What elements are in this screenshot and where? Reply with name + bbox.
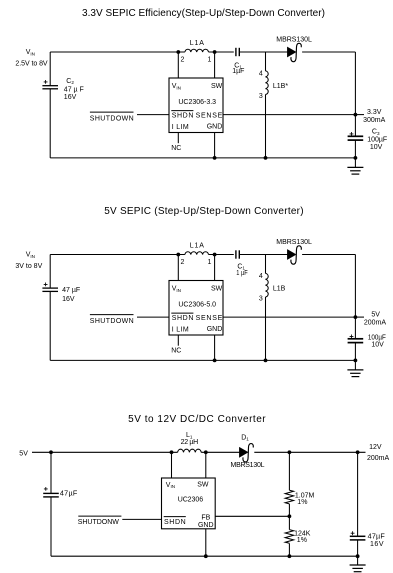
svg-text:FB: FB: [201, 514, 210, 521]
node SHUTDOWN input circuit 2: [90, 314, 134, 316]
svg-text:1 µF: 1 µF: [236, 270, 247, 277]
junction: output cap branch circuit 3: [356, 450, 360, 454]
wire: left input rail circuit 2: [49, 255, 51, 289]
capacitor C1 1uF coupling circuit 2: [235, 250, 237, 258]
junction: feedback divider top circuit 3: [288, 450, 292, 454]
svg-text:C2: C2: [66, 78, 74, 85]
svg-text:3.3V SEPIC Efficiency(Step-Up/: 3.3V SEPIC Efficiency(Step-Up/Step-Down …: [82, 8, 325, 19]
svg-text:SW: SW: [211, 286, 223, 293]
wire: VOUT stub circuit 1: [355, 114, 364, 116]
svg-text:L1A: L1A: [190, 40, 205, 47]
wire: left input branch circuit 3: [50, 452, 52, 493]
svg-text:5V to 12V DC/DC Converter: 5V to 12V DC/DC Converter: [128, 414, 266, 425]
svg-text:47µF: 47µF: [368, 532, 386, 541]
inductor L1B circuit 1: [265, 52, 267, 71]
svg-text:1%: 1%: [297, 537, 307, 544]
junction: IC GND pin to bottom rail circuit 1: [214, 133, 216, 158]
svg-text:C3: C3: [372, 129, 380, 136]
junction: L1A pin1 / SW node circuit 1: [213, 50, 217, 54]
junction: GND pin / bottom rail circuit 3: [204, 554, 208, 558]
svg-text:SHDN: SHDN: [164, 519, 186, 526]
wire: SENSE pin to output node circuit 2: [223, 316, 355, 318]
svg-text:200mA: 200mA: [364, 320, 387, 327]
resistor R2 124K circuit 3: [288, 516, 290, 529]
diode D1 MBRS130L circuit 3: [239, 447, 248, 457]
junction: R2 to ground rail circuit 3: [288, 554, 292, 558]
wire: top rail L1A to C1 circuit 2: [209, 254, 234, 256]
svg-text:SHDN: SHDN: [172, 113, 194, 120]
capacitor C1 1uF coupling circuit 1: [235, 48, 237, 56]
svg-text:L1B*: L1B*: [273, 83, 288, 90]
wire: NC stub from ILIM pin circuit 2: [177, 335, 179, 346]
svg-text:16V: 16V: [370, 541, 384, 548]
wire: output rail down circuit 2: [354, 255, 356, 339]
svg-text:1: 1: [207, 57, 211, 64]
svg-text:5V: 5V: [371, 312, 380, 319]
svg-text:VIN: VIN: [172, 286, 181, 293]
IC U1 UC2306-3.3 circuit 1: [169, 78, 223, 133]
svg-text:300mA: 300mA: [363, 117, 386, 124]
svg-text:3V to 8V: 3V to 8V: [15, 263, 42, 270]
wire: diode to output rail circuit 2: [302, 254, 355, 256]
svg-text:47µF: 47µF: [60, 489, 78, 498]
svg-text:UC2306: UC2306: [178, 496, 203, 503]
inductor L1A circuit 2: [185, 252, 209, 255]
svg-text:47 µF: 47 µF: [62, 287, 80, 294]
capacitor C3 100uF circuit 1: [348, 135, 364, 137]
svg-text:MBRS130L: MBRS130L: [276, 36, 312, 43]
svg-text:SHUTDONW: SHUTDONW: [78, 519, 120, 526]
wire: SHUTDOWN to SHDN pin circuit 2: [137, 316, 169, 318]
svg-text:SHUTDOWN: SHUTDOWN: [90, 318, 134, 325]
pin SHDN label circuit 3: [164, 516, 186, 518]
wire: diode to output rail circuit 1: [302, 51, 355, 53]
wire: SENSE pin to output node circuit 1: [223, 114, 355, 116]
wire: ground bottom rail circuit 3: [51, 555, 358, 557]
svg-text:GND: GND: [207, 123, 223, 130]
svg-text:I LIM: I LIM: [172, 327, 189, 334]
svg-text:L1A: L1A: [190, 242, 205, 249]
svg-text:47 µ F: 47 µ F: [64, 86, 84, 93]
wire: L1A pin2 to IC VIN pin circuit 1: [177, 52, 179, 78]
junction: FB node circuit 3: [288, 514, 292, 518]
svg-text:1: 1: [207, 259, 211, 266]
svg-text:SW: SW: [197, 482, 209, 489]
wire: ground bottom rail circuit 1: [50, 157, 355, 159]
ground symbol circuit 2: [354, 360, 356, 370]
svg-text:MBRS130L: MBRS130L: [276, 239, 312, 246]
wire: input top rail circuit 2: [50, 254, 185, 256]
svg-text:2: 2: [180, 57, 184, 64]
wire: NC stub from ILIM pin circuit 1: [177, 133, 179, 144]
svg-text:VIN: VIN: [166, 482, 175, 489]
wire: ground bottom rail circuit 2: [50, 359, 355, 361]
junction: input cap branch circuit 3: [49, 450, 53, 454]
svg-text:SENSE: SENSE: [196, 315, 223, 322]
node SHUTDONW input circuit 3: [78, 515, 121, 517]
junction: output cap to ground rail circuit 3: [356, 554, 360, 558]
resistor R1 1.07M circuit 3: [288, 452, 290, 490]
svg-text:VIN: VIN: [26, 49, 35, 56]
IC U3 UC2306 circuit 3: [162, 478, 216, 529]
wire: C1 to diode circuit 2: [239, 254, 287, 256]
svg-text:VIN: VIN: [26, 252, 35, 259]
junction: output cap to bottom rail circuit 2: [354, 359, 358, 363]
svg-text:2.5V to 8V: 2.5V to 8V: [15, 61, 48, 68]
svg-text:3.3V: 3.3V: [367, 109, 382, 116]
wire: SHUTDOWN to SHDN pin circuit 1: [137, 114, 169, 116]
svg-text:UC2306-5.0: UC2306-5.0: [178, 301, 216, 308]
ground symbol circuit 3: [357, 556, 359, 565]
svg-text:1µF: 1µF: [232, 68, 244, 75]
wire: IC GND pin to ground rail circuit 3: [205, 529, 207, 556]
capacitor output 47uF 16V circuit 3: [350, 535, 366, 537]
pin SHDN label circuit 2: [171, 312, 193, 314]
inductor L1A circuit 1: [185, 49, 209, 52]
wire: L1A pin1 to IC SW pin circuit 2: [214, 255, 216, 281]
svg-text:GND: GND: [207, 326, 223, 333]
svg-text:10V: 10V: [370, 144, 383, 151]
wire: L1A pin2 to IC VIN pin circuit 2: [177, 255, 179, 281]
diode MBRS130L circuit 2: [287, 250, 296, 260]
svg-text:SHUTDOWN: SHUTDOWN: [90, 116, 134, 123]
wire: FB pin to divider circuit 3: [215, 515, 289, 517]
wire: L1A pin1 to IC SW pin circuit 1: [214, 52, 216, 78]
wire: L1 to IC VIN pin circuit 3: [171, 452, 173, 478]
wire: L1 to IC SW pin circuit 3: [205, 452, 207, 478]
wire: input top rail circuit 1: [50, 51, 185, 53]
svg-text:VIN: VIN: [172, 83, 181, 90]
svg-text:16V: 16V: [64, 94, 77, 101]
wire: 5V input rail circuit 3: [32, 451, 178, 453]
svg-text:D1: D1: [241, 434, 249, 441]
svg-text:GND: GND: [198, 522, 214, 529]
svg-text:I LIM: I LIM: [172, 124, 189, 131]
svg-text:12V: 12V: [369, 444, 382, 451]
wire: top rail L1A to C1 circuit 1: [209, 51, 234, 53]
wire: output rail down circuit 3: [357, 452, 359, 536]
svg-text:16V: 16V: [62, 296, 75, 303]
svg-text:1%: 1%: [297, 499, 307, 506]
junction: L1B pin3 to bottom rail circuit 1: [264, 156, 268, 160]
svg-text:L1B: L1B: [273, 286, 286, 293]
svg-text:SENSE: SENSE: [196, 112, 223, 119]
capacitor C2 47uF circuit 1: [42, 85, 58, 87]
wire: output rail down circuit 1: [354, 52, 356, 136]
pin SHDN label circuit 1: [171, 110, 193, 112]
svg-text:NC: NC: [171, 145, 181, 152]
diode MBRS130L circuit 1: [287, 47, 296, 57]
svg-text:100µF: 100µF: [367, 137, 387, 144]
svg-text:100µF: 100µF: [368, 335, 386, 342]
capacitor output 100uF circuit 2: [348, 338, 364, 340]
junction: SENSE / VOUT node circuit 2: [354, 315, 358, 319]
svg-text:2: 2: [180, 259, 184, 266]
svg-text:3: 3: [259, 93, 263, 100]
svg-text:200mA: 200mA: [367, 455, 390, 462]
junction: L1B pin3 to bottom rail circuit 2: [264, 359, 268, 363]
svg-text:10V: 10V: [371, 342, 384, 349]
svg-text:NC: NC: [171, 348, 181, 355]
junction: L1A pin2 / VIN node circuit 2: [176, 253, 180, 257]
ground symbol circuit 1: [354, 158, 356, 168]
wire: left input rail circuit 1: [49, 52, 51, 86]
wire: SHUTDONW to SHDN pin circuit 3: [122, 518, 161, 520]
svg-text:SW: SW: [211, 83, 223, 90]
wire: D1 to output circuit 3: [254, 451, 365, 453]
capacitor input bulk 47uF circuit 2: [42, 287, 58, 289]
inductor L1B circuit 2: [265, 255, 267, 274]
junction: L1A pin2 / VIN node circuit 1: [176, 50, 180, 54]
junction: L1 left / IC VIN circuit 3: [170, 450, 174, 454]
node SHUTDOWN input circuit 1: [90, 111, 134, 113]
wire: VOUT stub circuit 2: [355, 316, 364, 318]
junction: IC GND pin to bottom rail circuit 2: [214, 335, 216, 360]
capacitor input 47uF circuit 3: [43, 492, 59, 494]
junction: L1A pin1 / SW node circuit 2: [213, 253, 217, 257]
svg-text:22 µH: 22 µH: [181, 439, 199, 446]
svg-text:MBRS130L: MBRS130L: [231, 462, 265, 469]
junction: SENSE / VOUT node circuit 1: [354, 113, 358, 117]
svg-text:SHDN: SHDN: [172, 315, 194, 322]
junction: output cap to bottom rail circuit 1: [354, 156, 358, 160]
IC U2 UC2306-5.0 circuit 2: [169, 281, 223, 336]
inductor L1 22uH circuit 3: [178, 449, 202, 452]
svg-text:4: 4: [259, 71, 263, 78]
junction: L1 right / IC SW circuit 3: [204, 450, 208, 454]
svg-text:4: 4: [259, 273, 263, 280]
wire: C1 to diode circuit 1: [239, 51, 287, 53]
svg-text:5V SEPIC (Step-Up/Step-Down Co: 5V SEPIC (Step-Up/Step-Down Converter): [104, 206, 303, 217]
svg-text:5V: 5V: [19, 450, 28, 457]
wire: L1 to diode D1 circuit 3: [201, 451, 239, 453]
svg-text:UC2306-3.3: UC2306-3.3: [178, 99, 216, 106]
svg-text:3: 3: [259, 295, 263, 302]
